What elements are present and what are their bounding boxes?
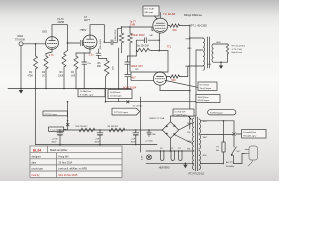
title block (30, 146, 122, 178)
ground symbol input (19, 89, 24, 94)
resistor R6 (97, 59, 115, 102)
ground return line (36, 144, 158, 146)
svg-text:25 Nov 2014: 25 Nov 2014 (59, 162, 73, 165)
svg-text:WHT: WHT (203, 137, 208, 139)
wire input jack ground drop (20, 46, 22, 89)
resistor R8B splitter load (128, 27, 132, 72)
wire mains top (201, 120, 235, 142)
callout pill HV (208, 110, 236, 115)
svg-text:22/7@0 agrw: 22/7@0 agrw (45, 113, 58, 116)
wire V3 grid (130, 27, 153, 31)
ground PS (183, 163, 187, 168)
svg-text:circuit type: circuit type (32, 168, 44, 171)
svg-text:RqLd Lase: RqLd Lase (232, 52, 243, 54)
svg-text:5mH@Lagrw: 5mH@Lagrw (210, 112, 223, 115)
svg-text:500: 500 (173, 29, 178, 32)
wire input to V1 grid (23, 43, 46, 45)
svg-text:DC?60 SnF: DC?60 SnF (175, 111, 187, 113)
resistor R1 (28, 44, 38, 89)
title row 1 (33, 148, 67, 152)
svg-text:1.7% T.Hd: 1.7% T.Hd (232, 49, 243, 51)
resistor R9 tail (128, 50, 140, 71)
svg-text:160V@6am: 160V@6am (198, 97, 209, 99)
capacitor C2 coupling (81, 40, 83, 45)
svg-text:400V: 400V (52, 142, 57, 144)
wire OPT primary bottom (188, 66, 203, 77)
wire B+ vertical A (189, 26, 191, 129)
wire feedback drop (118, 48, 120, 102)
heater rail top (146, 150, 194, 151)
capacitor C13 small (145, 130, 156, 143)
svg-text:Hung NH: Hung NH (59, 155, 69, 158)
svg-text:GRN: GRN (185, 39, 190, 41)
fuse F1 (216, 142, 225, 164)
svg-text:10.5A@2wt: 10.5A@2wt (80, 90, 91, 93)
svg-text:11m@1agrw: 11m@1agrw (200, 87, 212, 90)
ground secondary (219, 62, 223, 69)
svg-text:Hi-T 6CA?: Hi-T 6CA? (145, 8, 156, 11)
svg-text:PiccupB@5wt: PiccupB@5wt (243, 131, 256, 134)
svg-text:160uF 460V: 160uF 460V (131, 34, 145, 37)
svg-text:BLU: BLU (185, 66, 189, 68)
svg-text:P0mq@Lagrw: P0mq@Lagrw (243, 135, 257, 138)
wire ground drop (35, 88, 37, 145)
svg-text:3 M8: 3 M8 (130, 24, 136, 27)
svg-text:500: 500 (172, 79, 177, 82)
wire bridge AC diagonals (174, 123, 192, 144)
note HT label (58, 18, 65, 24)
svg-text:GFB3T CT-15A: GFB3T CT-15A (149, 117, 165, 120)
svg-text:date: date (32, 162, 37, 165)
wire lower return (105, 101, 197, 108)
svg-text:9K 3W R11: 9K 3W R11 (108, 126, 120, 128)
resistor R3 (58, 43, 67, 89)
resistor R12 filter (75, 126, 95, 132)
wire heater feed drop (140, 97, 142, 152)
wire bridge DC+ (162, 129, 164, 131)
title row 5 mod by (32, 174, 79, 177)
svg-text:+7uF: +7uF (95, 138, 101, 140)
resistor R16 plate V4 (167, 75, 188, 78)
tube V1 ECC83 (43, 31, 59, 53)
title row 4 circuit type (32, 168, 88, 171)
capacitor C4 (96, 49, 107, 59)
capacitor C9 (125, 75, 130, 89)
junction X mains (233, 133, 236, 147)
capacitor C10 filter (52, 130, 64, 145)
callout box 277VDC (112, 108, 140, 115)
svg-text:GRN: GRN (216, 42, 221, 44)
svg-text:5mY@5wt: 5mY@5wt (200, 84, 210, 87)
resistor R8A splitter load (119, 26, 130, 53)
junction X mark (66, 101, 69, 130)
svg-text:5ml@6wak: 5ml@6wak (110, 92, 121, 94)
svg-text:1K: 1K (42, 76, 45, 78)
svg-text:6.3V: 6.3V (142, 155, 144, 160)
svg-text:BLK: BLK (203, 121, 207, 123)
svg-text:RED: RED (187, 48, 192, 50)
title row 3 date (32, 162, 73, 165)
ground bus (8, 88, 131, 90)
svg-text:100K: 100K (58, 76, 64, 78)
resistor R4 (71, 53, 90, 89)
svg-text:W? 16+4Ohm: W? 16+4Ohm (232, 46, 246, 48)
svg-text:450V: 450V (95, 142, 100, 144)
resistor R11 filter (108, 126, 126, 132)
mains plug P1 (245, 146, 258, 166)
svg-text:designer: designer (32, 155, 41, 158)
tube V3 EL34 (153, 13, 168, 34)
svg-text:mod by: mod by (32, 174, 41, 177)
svg-text:1m c/7wmc: 1m c/7wmc (133, 106, 143, 108)
svg-text:100n 400V: 100n 400V (100, 38, 102, 49)
svg-text:450V: 450V (131, 142, 136, 144)
callout box mains spec (236, 130, 266, 139)
svg-text:RED: RED (187, 123, 192, 125)
svg-text:470K: 470K (28, 76, 34, 78)
svg-text:12AU? PL3: 12AU? PL3 (114, 29, 117, 41)
heater V3 (178, 148, 182, 161)
heater rail bottom (146, 163, 194, 165)
svg-text:+C? 400: +C? 400 (145, 141, 154, 143)
wire V2 plate rail (90, 25, 105, 43)
callout note box DC (173, 109, 194, 120)
bridge rectifier BR1 (149, 117, 179, 138)
svg-text:1K5: 1K5 (71, 76, 76, 78)
heater V1 (160, 148, 164, 161)
callout box bias A (78, 89, 105, 97)
svg-text:277V@0 agrw: 277V@0 agrw (114, 111, 128, 114)
svg-text:+C?uF: +C?uF (52, 138, 59, 140)
svg-text:C?4B: C?4B (151, 134, 157, 136)
resistor R15 plate V3 (168, 24, 190, 27)
wire secondary top (214, 42, 228, 44)
transformer OPT1 (185, 37, 213, 70)
wire secondary bottom (208, 61, 228, 66)
capacitor C6 cathode bypass V3 (136, 38, 159, 50)
callout box PS G (196, 95, 220, 103)
capacitor C11 filter (95, 130, 104, 145)
svg-text:2W98: 2W98 (58, 21, 65, 24)
svg-text:BLK: BLK (208, 64, 212, 66)
svg-text:GRN: GRN (187, 141, 192, 143)
wire OPT center tap (196, 50, 203, 116)
svg-text:BLK: BLK (203, 155, 207, 157)
wire splitter row (131, 50, 168, 81)
svg-text:11m4Ω agrw: 11m4Ω agrw (110, 95, 122, 98)
svg-text:50-60Hz: 50-60Hz (226, 166, 234, 168)
heater V2 (171, 148, 175, 161)
svg-text:AC 2?V: AC 2?V (226, 161, 234, 164)
tube V4 EL34 (153, 72, 166, 85)
resistor R2 (42, 52, 52, 89)
svg-text:E81: E81 (43, 31, 48, 34)
svg-text:PCA@Pogrw: PCA@Pogrw (175, 113, 188, 116)
svg-text:push pull, will/6ae, no NFB: push pull, will/6ae, no NFB (59, 168, 88, 171)
svg-text:HEATERS: HEATERS (159, 167, 170, 170)
wire OPT primary top (189, 37, 203, 39)
svg-text:EL34: EL34 (33, 148, 41, 152)
svg-text:5Ω0@1agrw: 5Ω0@1agrw (198, 99, 210, 102)
note C7 label (84, 16, 91, 22)
capacitor C3 cathode (82, 53, 92, 89)
svg-text:Mon 23 Nov 2015: Mon 23 Nov 2015 (59, 174, 79, 177)
wire V1 plate to HT rail (52, 25, 68, 44)
svg-text:8watt amplifier: 8watt amplifier (50, 148, 67, 152)
svg-text:1.0und: 1.0und (50, 130, 57, 132)
svg-text:256 2W R12: 256 2W R12 (75, 126, 88, 128)
svg-text:9w 224 2W: 9w 224 2W (137, 46, 149, 48)
svg-text:6CA7 EL84: 6CA7 EL84 (123, 85, 137, 89)
tube V2 (82, 29, 97, 53)
wire bridge bottom (170, 138, 172, 152)
svg-text:4u7: 4u7 (132, 77, 137, 80)
svg-text:6?V: 6?V (82, 29, 87, 32)
wire V3 cathode (159, 33, 161, 51)
svg-text:PT1 P?L2D S2: PT1 P?L2D S2 (189, 174, 205, 176)
capacitor C12 filter (131, 130, 139, 145)
callout box bias B (108, 90, 132, 99)
svg-text:OPT 1, 45-G30D: OPT 1, 45-G30D (189, 25, 207, 28)
svg-text:100uF 16V: 100uF 16V (131, 65, 144, 68)
svg-text:+7uF: +7uF (131, 138, 137, 140)
callout box left E (49, 127, 68, 132)
switch S1 (231, 147, 241, 164)
wire mains mid tap (201, 133, 233, 135)
callout note box V3 (143, 6, 159, 20)
callout box left D (43, 111, 68, 117)
note speaker spec (232, 46, 246, 55)
label mains AC (226, 161, 234, 168)
resistor R10 (136, 46, 151, 52)
wire mains bottom (201, 154, 246, 164)
callout box PS F (164, 80, 217, 91)
svg-text:8 5mA6c agrw: 8 5mA6c agrw (80, 94, 94, 97)
pilot lamp (142, 155, 152, 160)
wire interstage (67, 30, 84, 44)
svg-text:Kllbqpt DiMsmse: Kllbqpt DiMsmse (184, 14, 203, 17)
svg-text:26V: 26V (113, 66, 115, 70)
resistor RL load (226, 44, 228, 62)
B+ rail (57, 129, 162, 131)
svg-text:26K: 26K (97, 66, 102, 68)
wire V4 cathode row (160, 85, 191, 91)
svg-text:RWA: RWA (18, 35, 24, 38)
capacitor C8 bypass (125, 62, 130, 74)
capacitor C5 coupling (100, 29, 121, 50)
wire bridge top to B+ (171, 116, 197, 122)
svg-text:775 HOM: 775 HOM (15, 40, 25, 42)
transformer PT1 (187, 117, 208, 176)
input jack J1 RCA (15, 35, 25, 46)
svg-text:1.7v: 1.7v (49, 53, 55, 57)
svg-text:0A Lmqd: 0A Lmqd (145, 11, 154, 14)
svg-text:YC EL84: YC EL84 (163, 12, 176, 16)
svg-text:771: 771 (167, 45, 172, 49)
svg-text:0AY?: 0AY? (84, 19, 91, 22)
title row 2 designer (32, 155, 69, 158)
